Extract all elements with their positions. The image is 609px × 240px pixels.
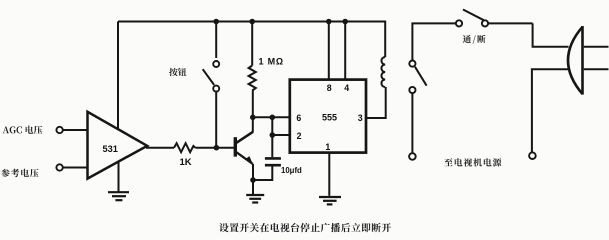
label on/off (通/断) <box>463 35 486 44</box>
switch S1 blade <box>203 69 214 85</box>
svg-text:3: 3 <box>358 113 363 123</box>
wire node to 555 pin 6 <box>253 116 290 118</box>
node junction base/switch <box>214 145 220 151</box>
wire S2 to plug corner <box>488 22 532 24</box>
node pin2/capacitor junction <box>270 132 276 138</box>
capacitor C1 <box>265 158 281 165</box>
switch S2 blade <box>463 10 484 21</box>
wire supply drop to op-amp <box>117 22 119 130</box>
plug P1 top prong <box>584 46 609 48</box>
ground 555 pin 1 <box>319 197 341 204</box>
wire reference input to op-amp <box>63 167 88 169</box>
svg-text:4: 4 <box>344 83 349 93</box>
wire plug lower prong to TV terminal right <box>532 69 570 152</box>
junction on rail at pushbutton <box>213 19 219 25</box>
label AGC voltage (AGC 电压) <box>3 126 43 135</box>
terminal TV power right <box>529 152 536 159</box>
wire collector riser <box>252 117 254 132</box>
op-amp U1 531 <box>88 112 148 179</box>
wire corner drop to plug top prong <box>533 23 569 46</box>
terminal reference input <box>56 164 62 170</box>
label to TV power (至电视机电源) <box>444 158 501 166</box>
ground emitter <box>246 195 264 203</box>
switch S1 lower contact <box>213 86 219 92</box>
switch S1 upper contact <box>213 61 219 67</box>
relay contact K1a blade <box>415 67 427 86</box>
wire pin 3 to relay coil <box>366 87 386 118</box>
junction on rail at 1M resistor <box>249 19 255 25</box>
svg-text:6: 6 <box>296 113 301 123</box>
transistor Q1 <box>235 132 253 165</box>
svg-text:1: 1 <box>325 142 330 152</box>
caption 设置开关在电视台停止广播后立即断开 <box>219 223 391 232</box>
node collector / R2 / pin6 junction <box>250 115 256 121</box>
ground op-amp <box>108 192 129 200</box>
svg-text:2: 2 <box>297 131 302 141</box>
wire pin 8 to rail <box>328 22 330 80</box>
svg-text:10μfd: 10μfd <box>281 166 302 175</box>
wire rail to R2 <box>251 22 253 66</box>
resistor R1 1K <box>174 143 195 152</box>
label reference voltage (参考电压) <box>1 169 38 177</box>
wire pin 4 to rail <box>344 22 346 80</box>
wire node to 555 pin 2 <box>272 134 290 136</box>
relay coil K1 <box>381 57 385 87</box>
wire junction down to pin2 node <box>271 117 273 135</box>
node emitter/capacitor junction <box>250 177 256 183</box>
plug P1 bottom prong <box>584 68 609 70</box>
svg-text:8: 8 <box>327 83 332 93</box>
wire contact to TV terminal <box>411 93 413 153</box>
resistor R2 1M <box>249 66 256 91</box>
junction on rail at 555 pin 4 <box>342 19 348 25</box>
wire S1 to base node <box>215 92 217 148</box>
switch S2 right contact <box>482 20 488 26</box>
plug P1 body <box>568 27 583 94</box>
svg-text:1K: 1K <box>180 157 192 168</box>
terminal AGC input <box>56 127 62 133</box>
wire R2 to collector node <box>252 91 254 118</box>
node junction above capacitor <box>270 115 276 121</box>
wire capacitor bottom lead to emitter <box>253 165 272 180</box>
switch S2 on/off left contact <box>456 20 462 26</box>
junction on rail at 555 pin 8 <box>326 19 332 25</box>
wire V+ top rail <box>118 22 385 58</box>
wire AGC input to op-amp <box>63 129 88 131</box>
terminal TV power left <box>409 153 416 160</box>
svg-text:531: 531 <box>103 144 118 154</box>
svg-text:1 MΩ: 1 MΩ <box>259 56 284 66</box>
switch S1 wire from rail <box>215 22 217 59</box>
IC U2 555 timer box <box>290 80 366 153</box>
wire capacitor top lead <box>271 135 273 157</box>
relay contact K1a upper <box>409 61 415 67</box>
wire op-amp output <box>146 147 174 149</box>
wire pin 1 to ground <box>328 153 330 196</box>
wire emitter drop <box>252 164 254 194</box>
wire relay contact top <box>412 23 456 60</box>
svg-text:555: 555 <box>322 113 337 123</box>
wire op-amp ground stub <box>118 162 120 192</box>
plug P1 face <box>581 26 584 95</box>
relay contact K1a lower <box>409 87 415 93</box>
label pushbutton (按钮) <box>169 68 186 76</box>
wire R1 to transistor base <box>195 147 234 149</box>
